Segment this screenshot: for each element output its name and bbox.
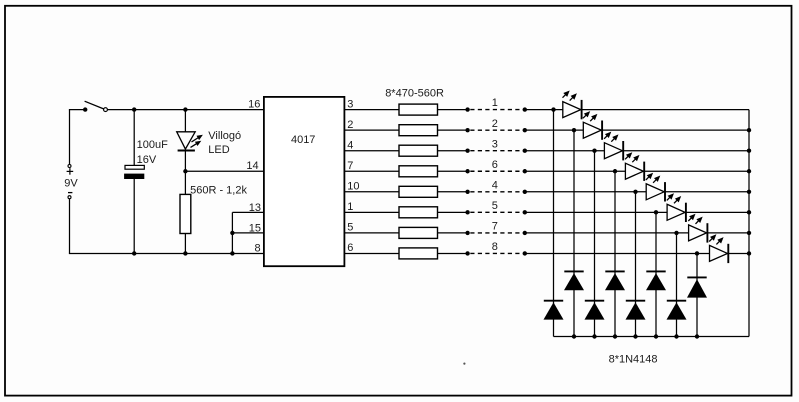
LED D9 xyxy=(710,245,728,261)
svg-text:9V: 9V xyxy=(64,178,78,190)
svg-text:8: 8 xyxy=(492,241,498,253)
stray ink dot xyxy=(463,363,465,365)
svg-text:5: 5 xyxy=(347,222,353,234)
node 4 right junction xyxy=(523,190,527,194)
wire pin 3 output row 1 xyxy=(344,109,399,111)
op-amp U1 4017 counter IC xyxy=(264,97,345,266)
LED D7 xyxy=(667,204,685,220)
diode D13 1N4148 xyxy=(605,270,624,272)
diode D14 1N4148 xyxy=(626,300,645,302)
node 5 left junction xyxy=(465,210,469,214)
wire node 5 to LED D7 anode xyxy=(525,211,667,213)
node 6 right junction xyxy=(523,169,527,173)
node column 5 junction xyxy=(633,190,637,194)
node bottom rail column 8 xyxy=(695,334,699,338)
svg-text:560R - 1,2k: 560R - 1,2k xyxy=(190,185,247,197)
node top rail / C1 junction xyxy=(132,107,136,111)
diode D16 1N4148 xyxy=(667,300,686,302)
wire column 3 xyxy=(594,151,596,337)
node column 7 junction xyxy=(674,231,678,235)
LED D3 xyxy=(583,122,601,138)
wire resistor R2 to node 1 xyxy=(438,109,468,111)
wire pin 5 output row 7 xyxy=(344,232,399,234)
svg-text:7: 7 xyxy=(492,221,498,233)
node 1 right junction xyxy=(523,107,527,111)
svg-text:15: 15 xyxy=(249,223,261,235)
resistor R6 470-560R xyxy=(399,186,438,197)
svg-text:1: 1 xyxy=(492,97,498,109)
node 3 right junction xyxy=(523,149,527,153)
wire pin 1 output row 6 xyxy=(344,211,399,213)
resistor R1 560R-1,2k xyxy=(180,194,191,233)
wire LED D5 cathode to right bus xyxy=(644,170,749,172)
svg-text:7: 7 xyxy=(347,160,353,172)
wire pin 7 output row 4 xyxy=(344,170,399,172)
wire resistor R6 to node 4 xyxy=(438,191,468,193)
node right bus row 2 xyxy=(747,128,751,132)
node right bus row 4 xyxy=(747,169,751,173)
wire right vertical bus xyxy=(748,110,750,337)
wire pin 13 xyxy=(232,211,264,213)
node 8 left junction xyxy=(465,251,469,255)
wire pin 4 output row 3 xyxy=(344,150,399,152)
svg-text:13: 13 xyxy=(249,202,261,214)
wire dashed net 4 xyxy=(470,191,523,193)
wire ground rail xyxy=(69,252,264,254)
svg-text:8*1N4148: 8*1N4148 xyxy=(609,353,658,365)
node right bus row 6 xyxy=(747,210,751,214)
resistor R2 470-560R xyxy=(399,104,438,115)
svg-text:6: 6 xyxy=(347,242,353,254)
LED D4 xyxy=(604,143,622,159)
svg-text:1: 1 xyxy=(347,201,353,213)
node ground / R1 junction xyxy=(183,251,187,255)
wire resistor R9 to node 8 xyxy=(438,252,468,254)
svg-text:16: 16 xyxy=(248,99,260,111)
svg-text:10: 10 xyxy=(347,181,359,193)
wire LED D2 cathode to right bus xyxy=(582,109,749,111)
wire node 6 to LED D5 anode xyxy=(525,170,626,172)
wire dashed net 7 xyxy=(470,232,523,234)
node column 3 junction xyxy=(592,149,596,153)
node column 2 junction xyxy=(572,128,576,132)
node 3 left junction xyxy=(465,149,469,153)
node bottom rail column 4 xyxy=(613,334,617,338)
wire dashed net 8 xyxy=(470,252,523,254)
node 2 right junction xyxy=(523,128,527,132)
node bottom rail column 3 xyxy=(592,334,596,338)
resistor R4 470-560R xyxy=(399,145,438,156)
svg-text:3: 3 xyxy=(347,98,353,110)
node bottom rail column 2 xyxy=(572,334,576,338)
wire node 3 to LED D4 anode xyxy=(525,150,605,152)
diode D10 1N4148 xyxy=(544,300,563,302)
resistor R7 470-560R xyxy=(399,207,438,218)
node right bus row 3 xyxy=(747,149,751,153)
wire column 5 xyxy=(635,192,637,337)
svg-text:6: 6 xyxy=(492,159,498,171)
node right bus row 7 xyxy=(747,231,751,235)
wire LED D8 cathode to right bus xyxy=(707,232,749,234)
wire pin 14 xyxy=(185,170,264,172)
wire dashed net 1 xyxy=(470,109,523,111)
wire dashed net 5 xyxy=(470,211,523,213)
node right bus row 5 xyxy=(747,190,751,194)
diode D15 1N4148 xyxy=(646,270,665,272)
wire node 1 to LED D2 anode xyxy=(525,109,563,111)
wire column 2 xyxy=(573,130,575,336)
wire column 4 xyxy=(614,171,616,336)
battery B1 9V xyxy=(69,110,71,165)
wire top rail left (battery + to switch) xyxy=(69,109,85,111)
wire node 7 to LED D8 anode xyxy=(525,232,689,234)
wire node 2 to LED D3 anode xyxy=(525,129,584,131)
wire column 8 xyxy=(696,253,698,336)
node ground / bus junction xyxy=(230,251,234,255)
wire column 7 xyxy=(676,233,678,337)
wire dashed net 6 xyxy=(470,170,523,172)
node bottom rail column 7 xyxy=(674,334,678,338)
wire LED D7 cathode to right bus xyxy=(686,211,749,213)
wire resistor R8 to node 7 xyxy=(438,232,468,234)
svg-text:4: 4 xyxy=(492,179,498,191)
node 7 right junction xyxy=(523,231,527,235)
svg-text:Villogó: Villogó xyxy=(208,130,241,142)
switch S1 xyxy=(83,107,87,111)
svg-text:4: 4 xyxy=(347,139,353,151)
svg-text:2: 2 xyxy=(347,119,353,131)
LED D5 xyxy=(625,163,643,179)
node 1 left junction xyxy=(465,107,469,111)
resistor R5 470-560R xyxy=(399,166,438,177)
capacitor C1 100uF 16V xyxy=(133,110,135,166)
wire diode bottom rail xyxy=(554,336,750,338)
diode D17 1N4148 xyxy=(687,276,706,278)
diode D12 1N4148 xyxy=(585,300,604,302)
resistor R8 470-560R xyxy=(399,227,438,238)
wire pin 15 xyxy=(232,232,264,234)
wire LED D9 cathode to right bus xyxy=(728,252,749,254)
wire resistor R4 to node 3 xyxy=(438,150,468,152)
resistor R3 470-560R xyxy=(399,125,438,136)
node bottom rail column 6 xyxy=(654,334,658,338)
node column 1 junction xyxy=(551,107,555,111)
diode D11 1N4148 xyxy=(564,270,583,272)
node column 8 junction xyxy=(695,251,699,255)
LED D6 xyxy=(646,184,664,200)
svg-text:16V: 16V xyxy=(137,154,157,166)
node D1 cathode / pin14 junction xyxy=(183,169,187,173)
svg-text:14: 14 xyxy=(246,160,258,172)
LED D1 villogo xyxy=(184,110,186,132)
wire node 4 to LED D6 anode xyxy=(525,191,646,193)
wire resistor R7 to node 5 xyxy=(438,211,468,213)
wire LED D6 cathode to right bus xyxy=(665,191,749,193)
node column 4 junction xyxy=(613,169,617,173)
svg-text:3: 3 xyxy=(492,138,498,150)
node 8 right junction xyxy=(523,251,527,255)
node 4 left junction xyxy=(465,190,469,194)
resistor R9 470-560R xyxy=(399,248,438,259)
node ground / C1 junction xyxy=(132,251,136,255)
svg-text:8*470-560R: 8*470-560R xyxy=(385,88,444,100)
svg-text:LED: LED xyxy=(208,144,229,156)
wire LED D3 cathode to right bus xyxy=(602,129,749,131)
wire resistor R5 to node 6 xyxy=(438,170,468,172)
LED D8 xyxy=(689,225,707,241)
wire dashed net 2 xyxy=(470,129,523,131)
wire pin13-15-8 bus xyxy=(231,212,233,253)
node column 6 junction xyxy=(654,210,658,214)
wire resistor R3 to node 2 xyxy=(438,129,468,131)
wire top rail (switch to IC pin 16) xyxy=(107,109,264,111)
node 7 left junction xyxy=(465,231,469,235)
svg-text:5: 5 xyxy=(492,200,498,212)
wire LED D4 cathode to right bus xyxy=(623,150,749,152)
node pin15 bus junction xyxy=(230,231,234,235)
wire column 1 xyxy=(553,110,555,337)
node 6 left junction xyxy=(465,169,469,173)
node top rail / LED D1 junction xyxy=(183,107,187,111)
svg-text:2: 2 xyxy=(492,118,498,130)
node right bus row 8 xyxy=(747,251,751,255)
svg-text:4017: 4017 xyxy=(291,134,315,146)
node bottom rail column 5 xyxy=(633,334,637,338)
node 5 right junction xyxy=(523,210,527,214)
node 2 left junction xyxy=(465,128,469,132)
wire pin 2 output row 2 xyxy=(344,129,399,131)
wire dashed net 3 xyxy=(470,150,523,152)
wire pin 10 output row 5 xyxy=(344,191,399,193)
svg-text:100uF: 100uF xyxy=(137,139,168,151)
svg-text:8: 8 xyxy=(254,243,260,255)
wire column 6 xyxy=(655,212,657,336)
wire pin 6 output row 8 xyxy=(344,252,399,254)
wire node 8 to LED D9 anode xyxy=(525,252,710,254)
LED D2 xyxy=(563,102,581,118)
